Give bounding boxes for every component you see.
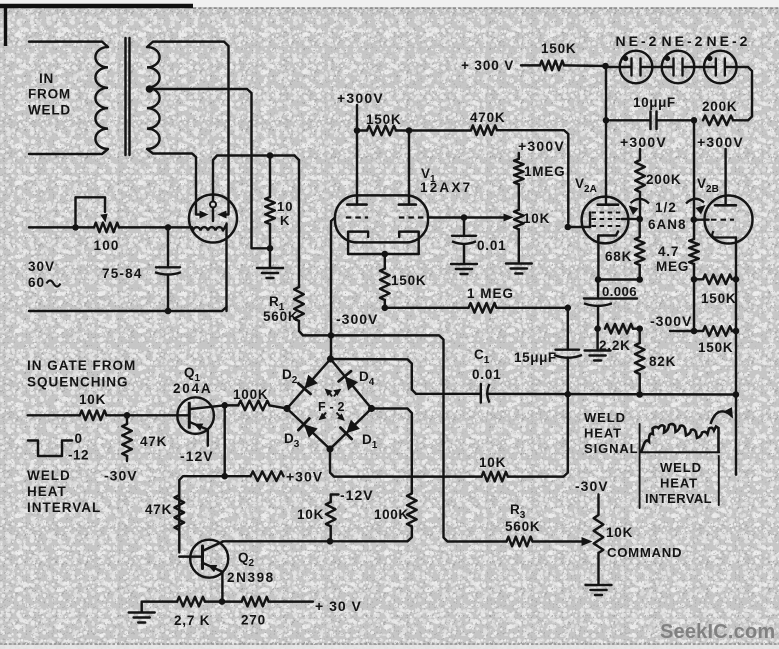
svg-text:+300V: +300V [518, 138, 565, 154]
svg-text:+300V: +300V [620, 134, 667, 150]
thyratron grid arrow left [200, 211, 209, 219]
bridge edge R-B [330, 409, 372, 450]
transformer primary top wire [29, 42, 108, 47]
transformer primary coil [95, 47, 108, 149]
svg-text:HEAT: HEAT [660, 476, 698, 491]
V2B grid dashes [711, 219, 734, 221]
ground [129, 611, 155, 613]
V2B cathode [712, 231, 736, 238]
svg-text:100K: 100K [374, 507, 409, 522]
svg-text:6AN8: 6AN8 [648, 217, 687, 232]
diode D1 [346, 420, 360, 434]
potentiometer 10K [514, 210, 524, 230]
node dot [221, 473, 228, 480]
wire input gate [28, 414, 80, 416]
svg-text:100: 100 [94, 238, 120, 253]
transistor Q1 envelope [177, 397, 214, 434]
svg-text:560K: 560K [263, 309, 298, 324]
wire -300V stub [670, 330, 694, 332]
node dot [72, 224, 79, 231]
wire V2A plate column [604, 66, 607, 204]
node dot [267, 245, 274, 252]
neon lamp NE-2 #2 [662, 51, 695, 84]
svg-text:60: 60 [28, 275, 45, 290]
V2A cathode [598, 232, 618, 241]
svg-text:200K: 200K [646, 172, 681, 187]
pointer arrow to V2A [631, 199, 650, 204]
wire input lower [29, 307, 227, 311]
node dot [636, 276, 643, 283]
resistor 150K cathode [384, 254, 386, 269]
svg-text:-300V: -300V [650, 313, 692, 329]
rheostat 100 bypass loop [76, 197, 106, 227]
scan border top edge [0, 4, 193, 8]
svg-text:270: 270 [241, 613, 266, 628]
svg-text:+30V: +30V [286, 469, 323, 485]
node center tap dot [146, 85, 154, 93]
capacitor C1 [480, 384, 482, 403]
capacitor 0.006 [597, 280, 599, 297]
V2B plate [715, 204, 736, 207]
svg-text:0.01: 0.01 [477, 238, 506, 253]
svg-text:NE-2: NE-2 [616, 33, 660, 49]
diode D3 [304, 424, 318, 438]
F-2 pointer arrows [327, 391, 332, 397]
capacitor 15uuF [556, 349, 580, 351]
svg-text:200K: 200K [702, 99, 737, 114]
wire bridge right down [372, 409, 412, 494]
svg-text:150K: 150K [391, 273, 426, 288]
node dot [461, 214, 468, 221]
svg-text:+300V: +300V [337, 90, 384, 106]
Q1 base bar [188, 403, 191, 427]
svg-text:10K: 10K [523, 211, 550, 226]
node dot [328, 332, 335, 339]
node dot [733, 276, 740, 283]
svg-text:10K: 10K [479, 455, 506, 470]
resistor 1MEG [469, 303, 497, 313]
wire to Q1 base [106, 414, 189, 416]
svg-text:INTERVAL: INTERVAL [27, 500, 101, 515]
svg-text:47K: 47K [145, 502, 172, 517]
node dot [691, 216, 698, 223]
wire Q1 collector down [223, 405, 225, 476]
wire V2B grid [694, 218, 709, 220]
wire 100K ends [225, 404, 239, 407]
Q2 base bar [201, 546, 204, 569]
thyratron anode [210, 202, 216, 208]
svg-text:560K: 560K [505, 519, 540, 534]
svg-text:0: 0 [75, 431, 83, 446]
node dot [221, 402, 228, 409]
capacitor line cap [167, 227, 169, 265]
ground [586, 584, 612, 586]
svg-text:30V: 30V [28, 259, 55, 274]
svg-text:IN GATE FROM: IN GATE FROM [27, 358, 136, 373]
wire 150K ends [357, 129, 367, 131]
resistor 68K [638, 219, 640, 237]
svg-text:150K: 150K [366, 112, 401, 127]
svg-text:WELD: WELD [584, 410, 626, 425]
V1 plate right [408, 131, 410, 205]
wire center tap [150, 89, 271, 248]
svg-text:204A: 204A [173, 381, 212, 396]
node dot [565, 305, 572, 312]
pointer arrow curved [711, 411, 731, 424]
neon lamp NE-2 #3 [704, 51, 737, 84]
resistor 100 [94, 223, 119, 233]
svg-text:COMMAND: COMMAND [607, 545, 682, 560]
node dot [691, 328, 698, 335]
resistor 10K [80, 411, 107, 421]
resistor R1 560K [298, 160, 300, 287]
wire Q2 base [179, 555, 202, 557]
node dot [368, 405, 375, 412]
tube V2B envelope [705, 196, 753, 244]
wire 10uuF line [658, 119, 695, 121]
resistor 270 [242, 597, 269, 607]
wire emitter line [142, 602, 177, 612]
svg-text:-30V: -30V [104, 468, 138, 484]
node dot [603, 117, 610, 124]
transformer secondary coil [147, 47, 160, 149]
wire 15uuF column [567, 308, 569, 349]
svg-text:10K: 10K [297, 507, 324, 522]
arrow to pot [582, 537, 593, 546]
tube V2A envelope [582, 197, 629, 244]
svg-text:15μμF: 15μμF [514, 350, 557, 365]
transistor Q2 envelope [190, 540, 228, 578]
Q1 emitter [189, 422, 208, 430]
svg-text:2N398: 2N398 [227, 570, 275, 585]
svg-text:68K: 68K [605, 249, 632, 264]
svg-text:FROM: FROM [28, 87, 71, 102]
wire bridge top to C1 [331, 359, 417, 394]
svg-text:NE-2: NE-2 [707, 33, 751, 49]
wire V1 left grid down [331, 218, 335, 356]
wire [205, 600, 242, 602]
thyratron grid arrow right [218, 211, 227, 219]
wire to V2A grid column [497, 130, 568, 223]
wire between lamps [641, 66, 673, 68]
resistor 150K upper [694, 278, 703, 280]
V1 grid left dashes [346, 216, 368, 218]
node dot [565, 391, 572, 398]
svg-text:-12: -12 [68, 448, 89, 463]
wire to +30V [269, 600, 313, 602]
node dot [219, 598, 226, 605]
svg-text:10: 10 [277, 199, 293, 214]
wire 4.7MEG column [693, 120, 695, 239]
resistor 10K vertical [269, 156, 271, 198]
resistor R3 560K [507, 537, 533, 547]
svg-text:NE-2: NE-2 [662, 33, 706, 49]
wire to NE2 [564, 64, 606, 67]
svg-text:10K: 10K [606, 525, 633, 540]
resistor 470K [471, 125, 497, 135]
svg-text:SIGNAL: SIGNAL [584, 441, 639, 456]
node dot [326, 445, 333, 452]
svg-text:-12V: -12V [180, 448, 214, 464]
node dot [602, 63, 609, 70]
node dot [691, 276, 698, 283]
node dot [636, 391, 643, 398]
resistor 10K vertical [326, 502, 336, 526]
node dot [165, 224, 172, 231]
wire 470K line [409, 129, 471, 131]
thyratron cathode coil [192, 227, 193, 230]
resistor 100K [238, 401, 269, 411]
wire anode up [213, 156, 295, 202]
svg-text:150K: 150K [541, 41, 576, 56]
wire signal bus [416, 393, 481, 395]
pulse waveform [28, 441, 72, 457]
node dot [406, 127, 413, 134]
wire V1 grid / R1 node to bridge [329, 355, 332, 359]
svg-text:12AX7: 12AX7 [420, 180, 472, 195]
resistor 200K [703, 116, 733, 126]
svg-text:1MEG: 1MEG [524, 164, 565, 179]
svg-text:HEAT: HEAT [27, 484, 67, 499]
svg-text:150K: 150K [698, 340, 733, 355]
svg-text:10K: 10K [79, 392, 106, 407]
svg-text:-30V: -30V [575, 478, 609, 494]
wire V2A control grid [568, 226, 590, 228]
node dot [382, 305, 389, 312]
wire secondary bottom to grid-1 [147, 149, 203, 215]
wire anode node to 10K [295, 156, 300, 161]
wire +300V stub [356, 105, 358, 131]
wire V2A cathode down [597, 236, 599, 280]
wire to cathode node [119, 226, 192, 228]
ground [506, 262, 532, 264]
bridge edge L-B [287, 409, 330, 450]
svg-text:2,7 K: 2,7 K [174, 613, 210, 628]
svg-text:WELD: WELD [27, 468, 71, 483]
diode D4 [345, 376, 358, 390]
wire 4.7M to -300V [693, 279, 695, 331]
wire signal down to 10K [508, 394, 568, 476]
node dot [733, 391, 740, 398]
resistor 47K second [175, 495, 185, 530]
svg-text:SQUENCHING: SQUENCHING [27, 375, 129, 390]
diode D2 [305, 375, 318, 389]
resistor 100K vertical [407, 494, 417, 527]
resistor 10K horizontal [482, 472, 508, 482]
svg-text:1/2: 1/2 [655, 200, 677, 215]
V2A grid dashes [592, 212, 622, 214]
svg-text:+ 30 V: + 30 V [315, 598, 362, 614]
svg-text:1 MEG: 1 MEG [467, 286, 514, 301]
resistor 47K [126, 415, 128, 424]
svg-text:0.01: 0.01 [472, 367, 501, 382]
svg-text:HEAT: HEAT [584, 426, 622, 441]
wire Q1 emitter stub [207, 430, 209, 446]
wire cathode down [225, 224, 227, 312]
node dot [283, 405, 290, 412]
scan border left edge [4, 4, 7, 46]
svg-text:MEG: MEG [656, 259, 689, 274]
wire cathode-68K join [598, 278, 640, 280]
wire Q2 emitter down [221, 572, 223, 602]
node dot [594, 325, 601, 332]
V1 cathode right [399, 232, 419, 254]
resistor 150K [367, 126, 396, 136]
V1 plate left [356, 131, 358, 205]
pot wiper arrow [504, 214, 514, 222]
wire secondary top to grid-2 [147, 42, 229, 215]
svg-text:INTERVAL: INTERVAL [645, 491, 712, 506]
wire V2B cathode down [735, 238, 737, 280]
rheostat 100 wiper arrow [100, 214, 107, 223]
wire V2A screen out [622, 218, 640, 220]
Q2 emitter [203, 563, 223, 572]
wire input upper [29, 226, 94, 228]
wire bridge bottom down [330, 449, 482, 477]
wire -12V bracket [331, 495, 339, 503]
svg-text:75-84: 75-84 [102, 266, 143, 281]
svg-text:+300V: +300V [697, 134, 744, 150]
wire +30V branch [179, 476, 250, 552]
capacitor 10uuF [655, 112, 658, 130]
bridge edge T-L [287, 359, 331, 409]
V1 cathode left [348, 232, 368, 254]
wire -300V rail [385, 307, 469, 309]
wire V1 right grid out [428, 216, 505, 218]
resistor to +30V [251, 471, 284, 481]
svg-text:SeekIC.com: SeekIC.com [660, 621, 775, 643]
interval mark left [639, 424, 641, 508]
ground [451, 263, 477, 265]
V2A grid rail [589, 213, 591, 228]
wire -300V bus [303, 335, 507, 541]
node dot [124, 412, 131, 419]
resistor 82K [638, 329, 640, 343]
tube V1 envelope [335, 195, 428, 242]
resistor 2.7K [177, 597, 205, 607]
wire 47K-2 overlay [0, 0, 1, 1]
wire [521, 64, 540, 66]
weld heat waveform [641, 424, 719, 452]
svg-text:F - 2: F - 2 [318, 400, 345, 414]
svg-text:K: K [280, 213, 290, 228]
wire cap to bottom [167, 276, 169, 312]
svg-text:-12V: -12V [340, 487, 374, 503]
svg-text:4.7: 4.7 [658, 244, 679, 259]
waveform baseline [641, 451, 719, 453]
svg-text:100K: 100K [233, 387, 268, 402]
node dot [354, 127, 361, 134]
resistor 150K [540, 61, 564, 71]
resistor 1MEG pot [518, 153, 520, 159]
node dot [636, 216, 643, 223]
svg-text:150K: 150K [701, 291, 736, 306]
resistor 4.7MEG [689, 239, 699, 264]
svg-text:-300V: -300V [336, 311, 378, 327]
node dot [691, 117, 698, 124]
wire cathode join [348, 253, 419, 255]
node dot [327, 538, 334, 545]
svg-text:10μμF: 10μμF [633, 95, 676, 110]
V1 grid right dashes [399, 216, 424, 218]
svg-text:WELD: WELD [660, 460, 702, 475]
Q1 collector [189, 405, 224, 409]
ground [269, 248, 271, 267]
svg-text:+ 300 V: + 300 V [461, 58, 514, 73]
node dot [733, 328, 740, 335]
svg-text:47K: 47K [140, 434, 167, 449]
wire V2B cathode column [735, 279, 737, 474]
wire V2B plate stub [724, 149, 726, 205]
node dot [382, 251, 389, 258]
pointer arrow to V2B [686, 199, 704, 204]
Q2 collector [203, 542, 223, 551]
transformer core [124, 38, 126, 155]
capacitor 0.01 [463, 218, 465, 236]
neon lamp NE-2 #1 [620, 51, 653, 84]
resistor 200K [639, 149, 641, 160]
resistor 2.2K [605, 324, 633, 334]
V2A plate [598, 203, 618, 206]
potentiometer 10K COMMAND [597, 495, 599, 516]
resistor 150K lower [694, 330, 703, 332]
svg-text:470K: 470K [470, 110, 505, 125]
wire Q2 collector bus [223, 540, 408, 543]
node dot [636, 325, 643, 332]
svg-text:IN: IN [39, 71, 54, 86]
node dot [565, 224, 572, 231]
thyratron V75-84 envelope [189, 195, 237, 243]
svg-text:WELD: WELD [28, 103, 71, 118]
node dot [267, 152, 274, 159]
interval mark right [718, 456, 720, 505]
transformer primary bottom wire [29, 149, 108, 154]
wire lamp chain right down [725, 67, 752, 120]
svg-text:82K: 82K [649, 354, 676, 369]
wire R3 arrow [533, 540, 585, 542]
svg-text:0.006: 0.006 [602, 284, 637, 299]
node dot [327, 355, 334, 362]
node dot [595, 276, 602, 283]
capacitor plates [156, 266, 180, 268]
ground [596, 329, 598, 350]
bridge edge T-R [331, 359, 372, 409]
node dot [165, 308, 172, 315]
